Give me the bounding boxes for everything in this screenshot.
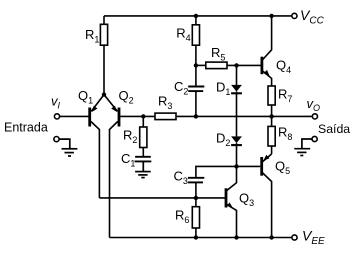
terminal output ground reference bbox=[312, 136, 317, 141]
wire: R2 top lead bbox=[142, 116, 144, 127]
wire: R6 top lead bbox=[195, 198, 197, 207]
wire: R2 bottom to C1 bbox=[142, 148, 144, 157]
terminal input ground reference bbox=[54, 137, 59, 142]
wire: R5 right to Q4 base bbox=[227, 64, 261, 66]
svg-text:R4: R4 bbox=[176, 25, 190, 43]
svg-text:vI: vI bbox=[51, 93, 61, 110]
svg-text:vO: vO bbox=[307, 96, 321, 113]
node: Q4 collector top junction bbox=[269, 14, 273, 18]
svg-text:R2: R2 bbox=[123, 128, 137, 146]
wire: C3 top corner from node bbox=[196, 166, 237, 177]
wire: C3 bottom lead bbox=[195, 182, 197, 198]
resistor R4 bbox=[192, 25, 199, 45]
node: C2 bottom junction bbox=[194, 114, 198, 118]
terminal VCC bbox=[292, 13, 297, 18]
wire: D1 cathode to D2 anode bbox=[236, 92, 238, 137]
transistor Q2 bbox=[104, 95, 119, 238]
svg-text:C1: C1 bbox=[121, 151, 135, 169]
svg-text:D2: D2 bbox=[216, 130, 230, 148]
resistor R8 bbox=[268, 126, 275, 146]
node: Q5 collector bottom junction bbox=[269, 235, 273, 239]
capacitor C1 bbox=[135, 157, 152, 162]
resistor R2 bbox=[140, 127, 147, 148]
diode D2 bbox=[231, 136, 242, 145]
svg-text:R3: R3 bbox=[158, 93, 172, 111]
resistor R5 bbox=[206, 62, 227, 69]
wire: vI to Q1 base bbox=[60, 115, 90, 117]
wire: C2 bottom lead bbox=[195, 91, 197, 116]
node: R5/D1/Q4-base junction bbox=[234, 63, 238, 67]
terminal vO bbox=[312, 114, 317, 119]
capacitor C3 bbox=[188, 178, 204, 183]
node: Q3 emitter bottom junction bbox=[234, 235, 238, 239]
svg-text:R7: R7 bbox=[278, 87, 292, 105]
svg-text:Q4: Q4 bbox=[276, 57, 291, 75]
wire: R8 bottom to Q5 emitter bbox=[271, 146, 273, 154]
wire: R6 bottom lead bbox=[195, 228, 197, 238]
node: R4 top junction bbox=[194, 14, 198, 18]
svg-text:Q1: Q1 bbox=[78, 88, 93, 106]
transistor Q1 bbox=[90, 95, 104, 198]
node: common emitter junction bbox=[102, 92, 106, 96]
wire: R4 top lead bbox=[195, 16, 197, 25]
node: R7/R8/output junction bbox=[269, 114, 273, 118]
wire: D2 cathode to Q3/Q5 node bbox=[236, 143, 238, 166]
svg-text:C3: C3 bbox=[174, 168, 188, 186]
svg-text:R1: R1 bbox=[85, 27, 99, 45]
node: R4/R5/C2 junction bbox=[194, 63, 198, 67]
transistor Q5 bbox=[262, 154, 272, 238]
svg-text:R8: R8 bbox=[278, 125, 292, 143]
node: Q2 base / R2 / R3 junction bbox=[141, 114, 145, 118]
wire: R7 bottom to output node bbox=[271, 105, 273, 116]
ground at output bbox=[294, 139, 312, 156]
wire: R1 top lead bbox=[103, 16, 105, 24]
wire: Q2 base to R3 bbox=[119, 115, 155, 117]
svg-text:Q5: Q5 bbox=[275, 159, 290, 177]
diode D1 bbox=[231, 65, 242, 93]
node: R6 bottom junction bbox=[194, 235, 198, 239]
wire: VCC top rail bbox=[104, 15, 292, 17]
svg-text:R5: R5 bbox=[211, 45, 225, 63]
ground below C1 bbox=[135, 161, 151, 177]
resistor R1 bbox=[100, 24, 107, 45]
resistor R6 bbox=[192, 207, 199, 228]
wire: Q1 collector horizontal to Q3 base node bbox=[99, 197, 195, 199]
wire: R1 bottom to emitter node bbox=[103, 45, 105, 94]
terminal vI input bbox=[54, 114, 59, 119]
svg-text:Q3: Q3 bbox=[239, 191, 254, 209]
wire: Q5 base from node bbox=[237, 165, 261, 167]
wire: R8 top lead bbox=[271, 116, 273, 126]
transistor Q4 bbox=[262, 16, 272, 86]
wire: VEE bottom rail bbox=[110, 237, 292, 239]
node: Q3 collector / D2 / Q5 base junction bbox=[234, 164, 238, 168]
terminal VEE bbox=[292, 235, 297, 240]
resistor R3 bbox=[155, 113, 176, 120]
svg-text:Saída: Saída bbox=[318, 122, 350, 136]
svg-text:C2: C2 bbox=[174, 79, 188, 97]
wire: node to R5 left bbox=[196, 64, 206, 66]
resistor R7 bbox=[268, 86, 275, 105]
ground at input bbox=[59, 139, 77, 156]
node: C3/R6/Q3-base junction bbox=[194, 196, 198, 200]
svg-text:VCC: VCC bbox=[300, 7, 325, 27]
wire: C2 top lead bbox=[195, 65, 197, 86]
svg-text:Q2: Q2 bbox=[119, 88, 134, 106]
wire: output line from R3 to vO terminal bbox=[176, 115, 312, 117]
svg-text:R6: R6 bbox=[175, 208, 189, 226]
capacitor C2 bbox=[188, 87, 204, 92]
wire: R4 bottom to R5 node bbox=[195, 45, 197, 65]
svg-text:VEE: VEE bbox=[302, 228, 325, 248]
svg-text:Entrada: Entrada bbox=[4, 121, 48, 135]
svg-text:D1: D1 bbox=[216, 80, 230, 98]
transistor Q3 bbox=[196, 166, 237, 237]
